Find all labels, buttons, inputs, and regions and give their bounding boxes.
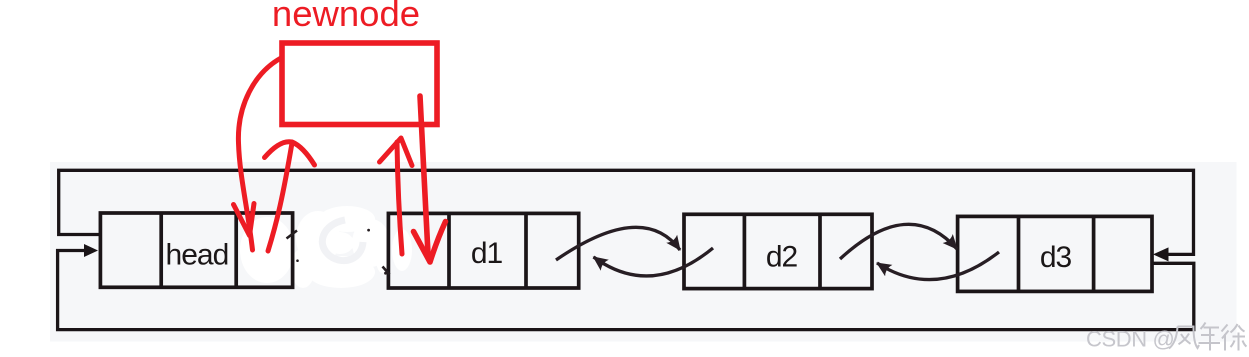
faint swirl inside eraser blob [322,220,363,261]
node head box [100,213,292,287]
red arrow: newnode left curve down to head.next cell [234,58,282,250]
wire: head.prev wrap-around to d3 (top loop) [59,170,1194,254]
curve arrow: d1.next to d2 [556,227,680,260]
watermark glyph nian [1199,323,1221,351]
svg-text:CSDN @: CSDN @ [1086,327,1174,352]
node d3 box [958,216,1152,291]
watermark glyph feng [1169,327,1199,349]
red newnode rectangle [282,43,437,125]
node d1 box [388,213,578,288]
red arrow: head.next cell up to newnode [265,142,315,251]
arrowhead into head left edge [84,244,98,257]
svg-text:newnode: newnode [272,0,420,34]
wire: d3.next wrap-around to head (bottom loop) [58,251,1194,330]
svg-text:d2: d2 [766,240,798,273]
arrowhead into d3 right edge [1153,247,1169,261]
curve arrow: d2.prev to d1 [594,248,714,276]
white eraser blob between head and d1 [240,206,412,288]
eraser remnant speck: head cell3 edge diagonal [287,231,298,239]
node d2 box [684,214,872,288]
red arrow: newnode down into d1 cell [414,96,446,262]
svg-text:head: head [166,239,229,272]
svg-text:d1: d1 [471,237,503,270]
curve arrow: d2.next to d3 [840,224,957,259]
eraser remnant speck near d1 left [383,267,390,275]
watermark glyph xu [1222,324,1247,351]
red arrow: d1 cell up to newnode [380,138,413,254]
svg-text:d3: d3 [1040,241,1072,274]
curve arrow: d3.prev to d2 [877,252,999,280]
eraser remnant dots [367,229,370,232]
gray panel background [50,162,1237,342]
